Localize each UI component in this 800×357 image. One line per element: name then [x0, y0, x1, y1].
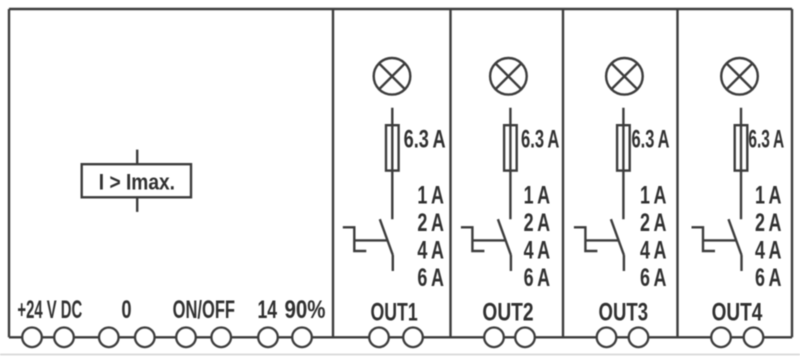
- svg-text:6.3 A: 6.3 A: [521, 125, 559, 153]
- terminal OUT1 a: [369, 328, 389, 348]
- svg-text:90%: 90%: [285, 296, 326, 324]
- wire lamp to switch through fuse OUT2: [509, 108, 511, 219]
- terminal 90%: [292, 328, 312, 348]
- svg-text:OUT3: OUT3: [599, 298, 649, 326]
- svg-text:6 A: 6 A: [755, 264, 782, 292]
- section divider 4: [676, 9, 678, 337]
- switch Q1 manual actuator: [343, 227, 367, 251]
- svg-text:1 A: 1 A: [755, 181, 782, 209]
- terminal 0V a: [99, 328, 119, 348]
- wire above comparator: [136, 150, 138, 165]
- svg-text:2 A: 2 A: [524, 209, 551, 237]
- svg-text:1 A: 1 A: [524, 181, 551, 209]
- switch Q3 actuator link: [585, 239, 618, 241]
- switch Q2 blade: [498, 219, 511, 255]
- switch Q1 actuator link: [354, 239, 387, 241]
- svg-text:6 A: 6 A: [417, 264, 444, 292]
- switch Q1 blade: [380, 219, 393, 255]
- indicator lamp H3: [606, 58, 643, 95]
- wire lamp to switch through fuse OUT3: [622, 108, 624, 219]
- terminal ON/OFF b: [211, 328, 231, 348]
- wire below switch OUT3: [623, 255, 625, 271]
- svg-text:2 A: 2 A: [755, 209, 782, 237]
- section divider 3: [562, 9, 564, 337]
- wire lamp to switch through fuse OUT1: [391, 108, 393, 219]
- fuse F4: [735, 125, 748, 170]
- svg-text:2 A: 2 A: [417, 209, 444, 237]
- switch Q3 blade: [611, 219, 624, 255]
- module frame top border: [9, 8, 792, 10]
- terminal OUT2 b: [515, 328, 535, 348]
- mounting rail line (bottom faint): [0, 354, 800, 356]
- terminal OUT3 a: [597, 328, 617, 348]
- fuse F3: [617, 125, 630, 170]
- svg-text:1 A: 1 A: [640, 181, 667, 209]
- svg-text:6.3 A: 6.3 A: [748, 125, 784, 153]
- fuse F2: [504, 125, 517, 170]
- indicator lamp H4: [721, 58, 758, 95]
- svg-text:ON/OFF: ON/OFF: [173, 296, 235, 324]
- svg-text:4 A: 4 A: [524, 237, 551, 265]
- indicator lamp H2: [490, 58, 527, 95]
- terminal +24V b: [54, 328, 74, 348]
- svg-text:OUT2: OUT2: [482, 298, 533, 326]
- terminal bus line bottom: [9, 336, 792, 338]
- switch Q4 actuator link: [703, 239, 736, 241]
- svg-text:6 A: 6 A: [524, 264, 551, 292]
- wire below switch OUT1: [392, 255, 394, 271]
- wire below switch OUT2: [510, 255, 512, 271]
- switch Q3 manual actuator: [574, 227, 598, 251]
- svg-text:6 A: 6 A: [640, 264, 667, 292]
- svg-text:1 A: 1 A: [417, 181, 444, 209]
- module frame right border: [791, 9, 793, 337]
- svg-text:+24 V DC: +24 V DC: [17, 296, 82, 324]
- terminal OUT2 a: [484, 328, 504, 348]
- svg-text:14: 14: [258, 296, 278, 324]
- overcurrent comparator box U1: [82, 164, 191, 197]
- terminal OUT4 b: [744, 328, 764, 348]
- svg-text:4 A: 4 A: [640, 237, 667, 265]
- section divider 1: [332, 9, 334, 337]
- switch Q2 actuator link: [472, 239, 505, 241]
- svg-text:4 A: 4 A: [417, 237, 444, 265]
- wire below switch OUT4: [740, 255, 742, 271]
- switch Q4 blade: [729, 219, 742, 255]
- switch Q2 manual actuator: [461, 227, 485, 251]
- terminal 14: [258, 328, 278, 348]
- section divider 2: [449, 9, 451, 337]
- svg-text:OUT1: OUT1: [371, 298, 418, 326]
- terminal OUT4 a: [711, 328, 731, 348]
- switch Q4 manual actuator: [692, 227, 716, 251]
- wire below comparator: [136, 197, 138, 212]
- wire lamp to switch through fuse OUT4: [740, 108, 742, 219]
- module frame left border: [8, 9, 10, 337]
- terminal OUT1 b: [403, 328, 423, 348]
- terminal ON/OFF a: [176, 328, 196, 348]
- indicator lamp H1: [374, 58, 411, 95]
- svg-text:I > Imax.: I > Imax.: [99, 170, 175, 195]
- svg-text:6.3 A: 6.3 A: [632, 125, 670, 153]
- svg-text:4 A: 4 A: [755, 237, 782, 265]
- terminal +24V a: [22, 328, 42, 348]
- svg-text:2 A: 2 A: [640, 209, 667, 237]
- svg-text:6.3 A: 6.3 A: [404, 125, 446, 153]
- svg-text:OUT4: OUT4: [712, 298, 763, 326]
- terminal 0V b: [135, 328, 155, 348]
- fuse F1: [386, 125, 399, 170]
- terminal OUT3 b: [629, 328, 649, 348]
- svg-text:0: 0: [121, 296, 131, 324]
